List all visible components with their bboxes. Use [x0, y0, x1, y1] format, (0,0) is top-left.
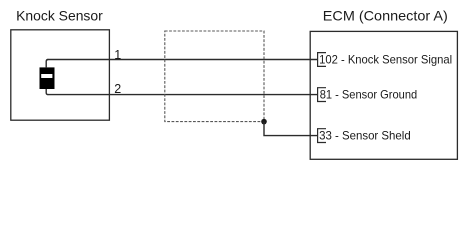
knock sensor box [11, 30, 110, 120]
wire 2 (sensor ground) [48, 94, 318, 96]
svg-text:2: 2 [114, 82, 121, 96]
piezo element body [40, 67, 55, 89]
svg-text:33 - Sensor Sheld: 33 - Sensor Sheld [319, 129, 411, 143]
wire 1 (knock sensor signal) [48, 59, 318, 61]
shield (dashed box) [165, 31, 264, 122]
wire stub top [46, 60, 48, 68]
ECM box [310, 31, 457, 159]
pin 81 bracket [318, 88, 326, 102]
svg-text:81 - Sensor Ground: 81 - Sensor Ground [320, 88, 418, 102]
shield junction dot [261, 119, 267, 125]
pin 102 bracket [318, 53, 326, 67]
svg-text:ECM (Connector A): ECM (Connector A) [323, 8, 448, 24]
svg-text:Knock Sensor: Knock Sensor [16, 8, 103, 24]
piezo element white band [41, 74, 52, 78]
svg-text:1: 1 [114, 48, 121, 62]
svg-text:102 - Knock Sensor Signal: 102 - Knock Sensor Signal [319, 53, 452, 67]
pin 33 bracket [318, 129, 326, 143]
wire stub bottom [46, 89, 48, 95]
shield wire to pin 33 [264, 122, 318, 136]
